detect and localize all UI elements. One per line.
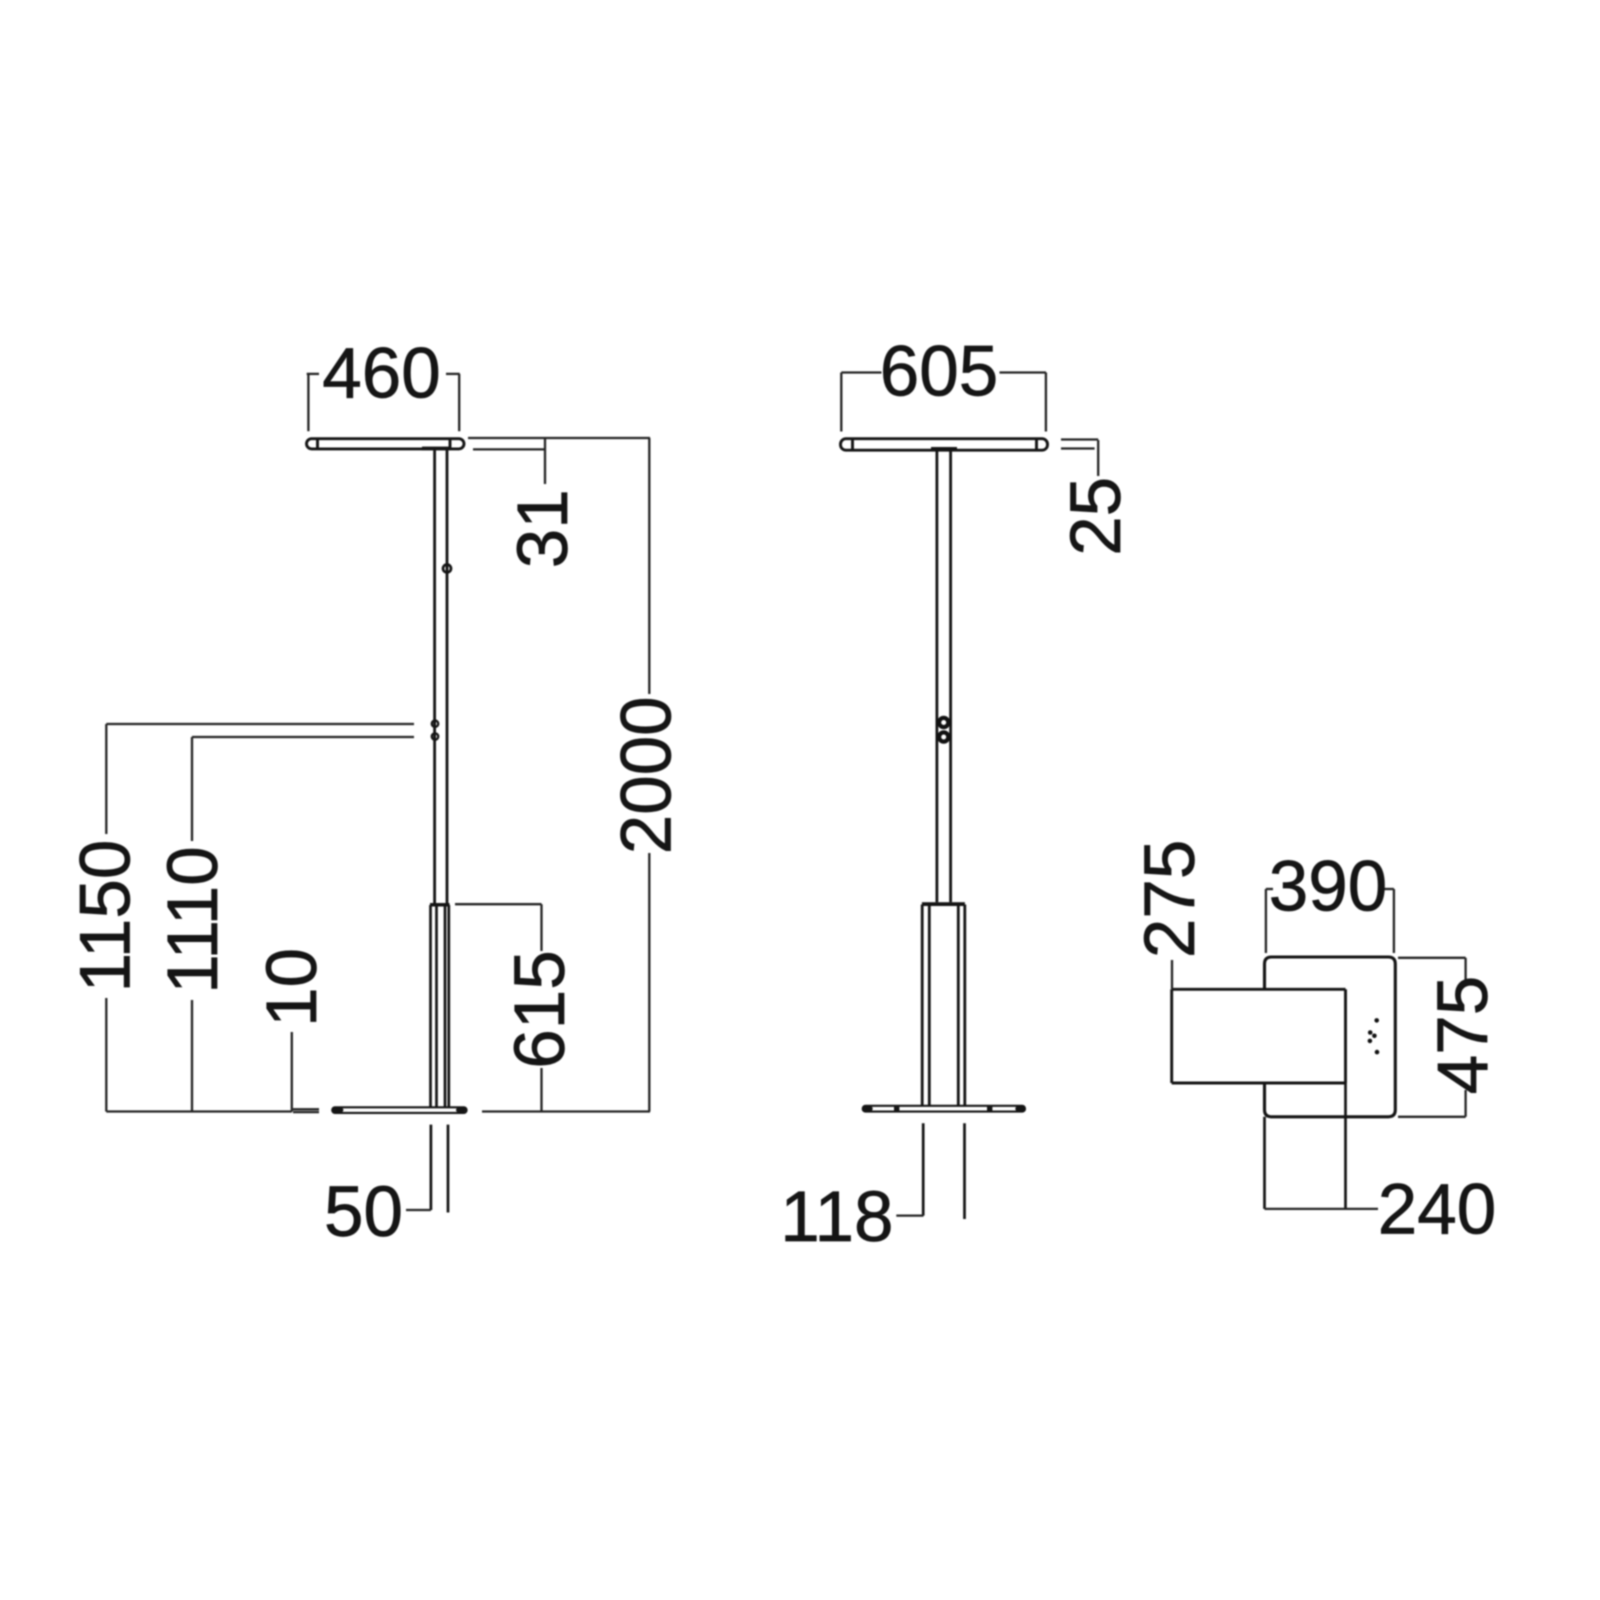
dim 1150 (106, 724, 414, 1112)
left view pole knob (443, 565, 451, 573)
dim 605 (841, 373, 1046, 432)
dim 390 (1266, 889, 1394, 953)
dim 10 (292, 1032, 319, 1112)
svg-text:50: 50 (324, 1173, 403, 1252)
left view lamp head (307, 439, 465, 451)
dim 275 (1171, 960, 1173, 989)
dim 460 (307, 374, 460, 431)
dim 50 (406, 1209, 431, 1211)
middle view motor housing (922, 902, 965, 1106)
middle view upper pole (937, 450, 951, 902)
svg-text:2000: 2000 (608, 696, 687, 854)
right view stub edge right (1344, 1083, 1347, 1209)
svg-text:605: 605 (880, 333, 998, 412)
dim 25 (1061, 440, 1098, 477)
dim 240 (1265, 1208, 1379, 1210)
svg-text:475: 475 (1424, 976, 1503, 1094)
svg-text:31: 31 (504, 489, 583, 568)
dim 615 (455, 904, 542, 1111)
middle view lamp head (841, 439, 1048, 451)
right view side plate left edge (1170, 989, 1173, 1083)
svg-text:275: 275 (1131, 840, 1210, 958)
left view upper pole (435, 450, 447, 903)
svg-text:118: 118 (780, 1178, 893, 1257)
left view pole button 1 (432, 721, 438, 727)
right view notch (1172, 989, 1346, 1083)
left view base plate (332, 1107, 466, 1113)
floor baseline left (106, 1110, 292, 1112)
left view motor housing (430, 903, 450, 1108)
svg-text:1110: 1110 (154, 846, 233, 993)
right view base body (1265, 957, 1396, 1117)
svg-text:10: 10 (253, 948, 332, 1027)
left view pole button 2 (432, 733, 438, 739)
left view floor stub (431, 1125, 448, 1213)
dim 2000 (468, 438, 650, 1112)
svg-text:460: 460 (322, 334, 440, 413)
dim 1110 (192, 737, 414, 1112)
right view stub edge left (1263, 1117, 1266, 1209)
svg-text:615: 615 (501, 950, 580, 1068)
dim 31 (473, 438, 545, 484)
svg-text:390: 390 (1269, 848, 1387, 927)
svg-text:240: 240 (1378, 1170, 1496, 1249)
svg-text:1150: 1150 (66, 840, 145, 993)
middle view floor stub (923, 1123, 964, 1219)
middle view pole button ring 1 (939, 718, 948, 727)
dim 475 (1398, 958, 1466, 1117)
middle view pole button ring 2 (939, 732, 948, 741)
dim 118 (896, 1214, 923, 1216)
middle view base plate (863, 1106, 1025, 1112)
svg-text:25: 25 (1057, 477, 1136, 556)
right view screw dots (1368, 1018, 1380, 1054)
